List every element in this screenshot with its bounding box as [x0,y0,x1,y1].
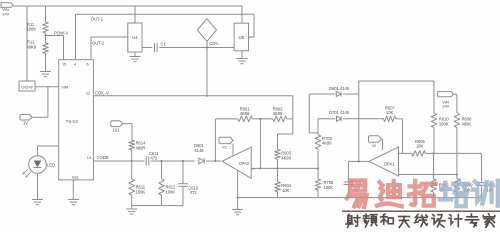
svg-text:100K: 100K [324,185,334,190]
svg-text:LN3-W: LN3-W [21,86,33,90]
svg-text:C1: C1 [161,41,167,46]
svg-text:VIM: VIM [61,84,68,89]
svg-text:4148: 4148 [194,148,204,153]
svg-text:OPA1: OPA1 [384,161,396,166]
svg-text:4K99: 4K99 [273,111,283,116]
svg-text:COIL: COIL [209,41,219,46]
svg-text:12: 12 [86,91,90,96]
svg-text:49K9: 49K9 [27,44,37,49]
svg-text:472: 472 [151,156,159,161]
svg-text:OPA2: OPA2 [239,161,250,166]
svg-text:COIL-V: COIL-V [95,91,109,96]
svg-text:10K: 10K [416,144,424,149]
svg-text:499R: 499R [136,145,146,150]
svg-text:OUT-2: OUT-2 [92,40,105,45]
svg-text:R612: R612 [166,184,177,189]
svg-text:R611: R611 [136,184,146,189]
svg-text:LED: LED [47,163,55,168]
svg-text:Vss: Vss [72,174,79,179]
svg-text:100K: 100K [166,190,176,195]
svg-text:13: 13 [87,155,91,160]
svg-text:6: 6 [87,61,89,66]
svg-text:15: 15 [62,61,66,66]
svg-text:472: 472 [190,190,198,195]
svg-text:4K99: 4K99 [240,111,250,116]
svg-text:U5: U5 [239,35,245,40]
svg-text:24V: 24V [2,11,9,16]
svg-text:V2: V2 [222,145,227,149]
svg-text:CODE: CODE [97,155,109,160]
svg-text:499K: 499K [462,122,472,127]
svg-text:POW-V: POW-V [54,31,68,36]
svg-text:U4: U4 [132,35,138,40]
svg-text:101: 101 [113,128,121,133]
svg-text:1V: 1V [23,120,28,125]
svg-text:OUT-1: OUT-1 [91,16,104,21]
svg-text:10K: 10K [282,188,290,193]
svg-text:D701 4148: D701 4148 [329,110,350,115]
svg-text:100K: 100K [136,190,146,195]
svg-text:TX-V3: TX-V3 [66,119,79,124]
svg-text:100K: 100K [439,122,449,127]
svg-text:+: + [252,167,254,171]
svg-text:24V: 24V [442,104,449,109]
svg-text:100K: 100K [27,27,37,32]
svg-text:V2: V2 [372,144,377,148]
svg-text:4K99: 4K99 [281,155,291,160]
svg-text:D601 4148: D601 4148 [329,86,350,91]
svg-text:4K99: 4K99 [322,141,332,146]
svg-text:10K: 10K [386,110,394,115]
